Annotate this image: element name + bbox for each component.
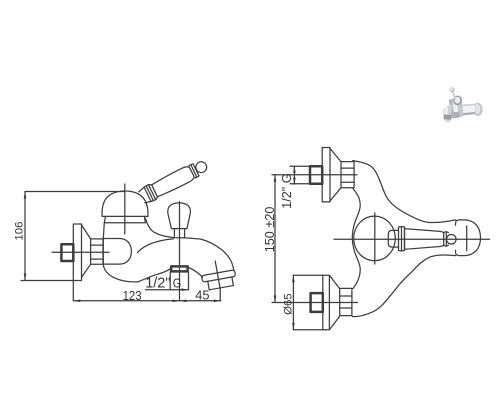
top cone lines <box>330 148 341 201</box>
photo lever <box>452 91 457 99</box>
body bottom outline <box>103 264 138 282</box>
svg-text:1/2": 1/2" <box>145 276 170 292</box>
top hex nut <box>341 162 354 188</box>
handle shaft (right view) <box>405 229 444 250</box>
bottom flange plate <box>323 275 330 329</box>
spout end center line (tilted) <box>215 261 220 301</box>
top flange plate <box>322 148 330 202</box>
supply nut (left view, thick) <box>61 244 73 261</box>
bottom supply pipe (thick) <box>311 293 323 312</box>
bottom dimension line 123/45 <box>73 300 221 302</box>
svg-text:106: 106 <box>14 222 26 241</box>
flange cone top line <box>82 225 91 239</box>
svg-text:G: G <box>173 276 182 291</box>
photo body tube <box>456 104 477 117</box>
dimension 106 extension line bottom <box>21 280 74 282</box>
horizontal center line (left view) <box>52 251 109 253</box>
top pipe extension lines <box>290 166 310 184</box>
bottom cone lines <box>329 275 339 329</box>
photo central body <box>449 98 464 119</box>
svg-text:1/2" G: 1/2" G <box>280 173 294 208</box>
circle vertical center line <box>374 213 376 264</box>
handle lever (left view) <box>138 157 210 205</box>
aerator body <box>208 277 234 290</box>
top center line <box>272 174 357 176</box>
central circle <box>354 216 396 261</box>
aerator ring <box>201 270 235 282</box>
spout front U <box>456 220 481 256</box>
aerator group (tilted) <box>201 270 237 291</box>
handle ribs (right view) <box>399 227 405 252</box>
body outline bottom lobe <box>353 255 456 317</box>
dimension 1/2 G line <box>293 166 295 184</box>
body dome <box>102 191 148 216</box>
handle end rings <box>444 232 449 247</box>
knob/outlet center line <box>179 202 181 301</box>
dimension 150 +-20 <box>274 175 276 303</box>
label leader line 1/2 G <box>146 289 189 291</box>
svg-text:123: 123 <box>123 288 142 303</box>
shower outlet box <box>170 272 188 290</box>
spout underside left of box <box>138 269 170 282</box>
extension line at wall <box>72 281 74 301</box>
photo handle ring <box>453 96 462 106</box>
dome collar <box>104 216 145 222</box>
dimension 106 extension line top <box>25 191 124 193</box>
photo aerator <box>443 115 451 121</box>
body boss (rounded) <box>103 239 131 265</box>
arrow left 123 <box>73 300 80 303</box>
main horizontal center line <box>334 238 490 240</box>
top supply pipe (thick) <box>310 166 322 184</box>
bottom center line <box>272 302 358 304</box>
photo diverter bit <box>454 112 460 118</box>
photo faucet <box>443 87 482 122</box>
knob stem <box>174 229 184 238</box>
photo spout <box>443 105 452 118</box>
handle ball (right view) <box>447 235 457 245</box>
dimension 106 arrow bottom <box>24 274 27 281</box>
arrow right 45 <box>214 300 221 303</box>
diverter knob <box>168 203 191 229</box>
body outline left wavy <box>352 189 360 289</box>
bottom extension lines (O65) <box>293 275 322 329</box>
wall flange plate (left view) <box>73 224 81 281</box>
body outline top lobe <box>353 161 456 223</box>
svg-text:Ø65: Ø65 <box>283 293 295 315</box>
flange cone bottom line <box>82 264 91 277</box>
handle cap (right view) <box>388 230 398 247</box>
arrows middle <box>173 300 180 303</box>
spout inner curve to aerator <box>189 268 203 278</box>
spout U center line <box>466 226 468 251</box>
dimension 106 arrow top <box>24 192 27 199</box>
bottom hex nut <box>340 288 352 315</box>
dome center line <box>124 184 126 234</box>
body-spout fillet curve <box>138 239 174 253</box>
svg-text:150 ±20: 150 ±20 <box>263 207 277 253</box>
dimension O65 line <box>292 275 294 329</box>
spout top curve <box>145 218 233 270</box>
shower outlet thick band <box>171 266 187 271</box>
hex nut (left view) <box>91 239 103 264</box>
body left side <box>103 223 104 239</box>
svg-text:45: 45 <box>195 288 209 303</box>
photo wall flange disc <box>473 103 483 116</box>
leader arrow <box>182 288 189 291</box>
dimension 106 line <box>24 192 26 281</box>
